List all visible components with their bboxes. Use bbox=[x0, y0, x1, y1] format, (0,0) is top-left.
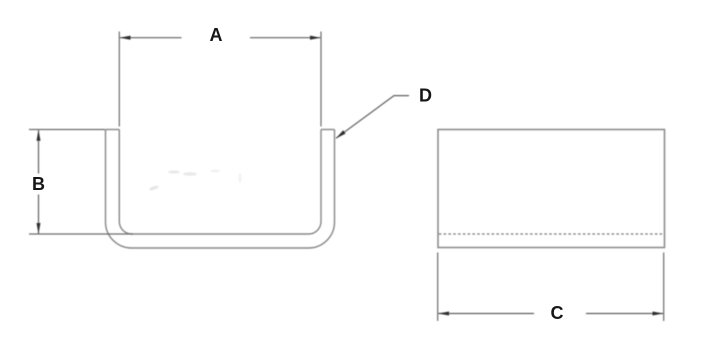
dimension A line right segment bbox=[250, 37, 320, 39]
dimension A left arrowhead bbox=[120, 36, 131, 40]
svg-text:B: B bbox=[32, 174, 45, 194]
svg-text:D: D bbox=[419, 86, 432, 106]
dimension C line left segment bbox=[438, 313, 534, 315]
faint artifact smudges inside channel bbox=[149, 170, 242, 192]
dimension A line left segment bbox=[120, 37, 182, 39]
dimension C right extension line bbox=[663, 253, 665, 322]
dimension B top extension line bbox=[29, 129, 105, 131]
side view rectangle bbox=[438, 130, 665, 248]
dimension B bottom extension line bbox=[29, 233, 133, 235]
dimension C left arrowhead bbox=[438, 312, 449, 316]
dimension A right arrowhead bbox=[310, 36, 321, 40]
dimension A right extension line bbox=[320, 32, 322, 127]
dimension B line upper segment bbox=[38, 130, 40, 173]
channel outer profile bbox=[106, 130, 335, 249]
channel left wall top cap bbox=[106, 129, 120, 131]
dimension C right arrowhead bbox=[653, 312, 664, 316]
side view hidden (dashed) bend line bbox=[439, 233, 664, 235]
leader line D bbox=[336, 96, 409, 139]
svg-text:C: C bbox=[551, 303, 564, 323]
leader D arrowhead bbox=[336, 130, 346, 138]
svg-text:A: A bbox=[210, 25, 223, 45]
dimension B top arrowhead bbox=[37, 130, 41, 141]
channel right wall top cap bbox=[321, 129, 335, 131]
dimension B bottom arrowhead bbox=[37, 223, 41, 234]
dimension C left extension line bbox=[437, 253, 439, 322]
dimension C line right segment bbox=[586, 313, 663, 315]
channel inner profile bbox=[119, 130, 321, 235]
dimension A left extension line bbox=[118, 32, 120, 127]
dimension B line lower segment bbox=[38, 195, 40, 234]
